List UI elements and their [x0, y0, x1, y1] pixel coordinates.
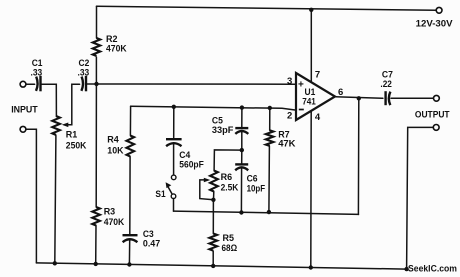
wire node to R6 top [214, 150, 242, 171]
wire pin 6 output to C7 [335, 97, 383, 99]
svg-text:.22: .22 [380, 79, 392, 90]
svg-text:R3: R3 [104, 207, 116, 218]
terminal input bottom [20, 126, 26, 132]
capacitor C7 .22 [386, 91, 391, 105]
wire C4 top lead [173, 107, 175, 138]
wire R7 bottom to feedback bus [268, 146, 271, 212]
svg-text:6: 6 [338, 87, 343, 98]
wire feedback bus horizontal [174, 211, 359, 214]
wire input bottom to ground rail [26, 129, 37, 263]
svg-text:10pF: 10pF [247, 184, 266, 195]
wire C5 bottom to node [241, 132, 243, 150]
svg-text:INPUT: INPUT [11, 104, 38, 114]
capacitor C4 560pF [166, 139, 182, 146]
svg-text:68Ω: 68Ω [222, 243, 238, 254]
wire R6 bottom to wiper junction [213, 192, 215, 200]
wire S1 bottom to feedback bus [173, 199, 175, 211]
wire R3 top lead [95, 84, 97, 207]
wire bottom ground rail [36, 263, 406, 269]
svg-text:741: 741 [302, 96, 316, 107]
svg-text:33pF: 33pF [212, 125, 234, 136]
terminal output top [434, 95, 440, 101]
node R6 wiper [211, 198, 215, 202]
svg-text:560pF: 560pF [179, 159, 204, 170]
node C2/R2/R3/pin3 [94, 82, 98, 86]
resistor R5 68ohm [209, 234, 217, 251]
node C6/feedback bus [239, 210, 243, 214]
svg-text:S1: S1 [155, 189, 166, 200]
svg-text:0.47: 0.47 [143, 239, 160, 250]
wire R1 bottom to ground rail [55, 136, 56, 264]
wire junction down to R5 [212, 200, 214, 234]
capacitor C6 10pF [235, 164, 248, 170]
svg-text:+: + [298, 79, 304, 90]
svg-text:SeekIC.com: SeekIC.com [408, 264, 457, 274]
wire pin 7 to supply rail [310, 9, 312, 82]
wire C6 bottom to feedback bus [240, 168, 242, 213]
op-amp U1 741 [296, 73, 335, 120]
wire C3 bottom to ground rail [128, 241, 130, 265]
terminal supply [436, 7, 442, 13]
capacitor C3 0.47 [123, 235, 138, 242]
svg-text:OUTPUT: OUTPUT [415, 110, 450, 120]
node output return/ground [404, 267, 408, 271]
resistor R2 470K [93, 38, 101, 56]
terminal output bottom [433, 125, 439, 131]
capacitor C2 .33 [81, 76, 86, 92]
node R7 top [268, 106, 272, 110]
node R5/ground [211, 264, 215, 268]
svg-text:.33: .33 [78, 67, 90, 78]
svg-text:2.5K: 2.5K [221, 183, 239, 194]
svg-text:3: 3 [287, 76, 292, 87]
wire C1 to corner and down to R1 [41, 84, 56, 116]
svg-text:4: 4 [315, 112, 321, 123]
wire C7 to output terminal [391, 97, 434, 99]
wire C2 right to junction and main wire to pin 3 [87, 83, 296, 85]
wire C4 bottom to S1 [173, 143, 175, 175]
wire top supply rail [97, 6, 437, 10]
svg-text:.33: .33 [31, 67, 43, 78]
resistor R6 2.5K potentiometer [210, 171, 218, 192]
wire R2 top lead [96, 6, 98, 38]
svg-text:250K: 250K [66, 141, 87, 152]
svg-text:7: 7 [315, 70, 320, 81]
node C4 top [172, 105, 176, 109]
svg-text:470K: 470K [106, 44, 127, 55]
wire feedback vertical from output node [357, 98, 359, 214]
wire R3 bottom lead [95, 226, 97, 264]
svg-text:2: 2 [287, 111, 292, 122]
wire C6 top lead [241, 150, 243, 163]
node C5/C6/R6 [240, 148, 244, 152]
capacitor C1 .33 [36, 76, 41, 92]
node pin4/ground [309, 265, 313, 269]
svg-text:47K: 47K [278, 139, 295, 150]
node pin7/supply [309, 8, 313, 12]
node R3/ground [94, 262, 98, 266]
wire R1 wiper riser [64, 84, 79, 125]
wire R5 bottom to ground rail [212, 251, 214, 266]
wire summing node horizontal to pin 2 [131, 106, 296, 110]
node R7/feedback bus [267, 210, 271, 214]
wire C5 top lead [241, 108, 243, 127]
svg-text:R1: R1 [66, 130, 78, 141]
wire R4 bottom to C3 [129, 157, 131, 235]
node C3/ground [127, 262, 131, 266]
svg-text:470K: 470K [104, 217, 125, 228]
terminal input top [20, 81, 26, 87]
wire input top to C1 [26, 83, 35, 85]
wire R2 bottom lead [95, 57, 97, 84]
wire R7 top lead [269, 108, 271, 130]
resistor R1 250K potentiometer [52, 116, 60, 135]
node C5 top [240, 105, 244, 109]
svg-text:R4: R4 [107, 134, 119, 145]
capacitor C5 33pF [235, 128, 248, 134]
wire R4 top lead [129, 106, 131, 135]
svg-text:12V-30V: 12V-30V [416, 19, 453, 29]
resistor R7 47K [266, 130, 274, 146]
wire pin 4 to ground rail [310, 111, 312, 268]
svg-text:10K: 10K [107, 146, 123, 157]
resistor R4 10K [127, 136, 135, 157]
wire output bottom terminal to ground rail [407, 127, 434, 269]
switch S1 [171, 175, 176, 180]
svg-text:R6: R6 [221, 172, 233, 183]
resistor R3 470K [92, 207, 100, 226]
wire R6 wiper rheostat tie [200, 180, 214, 200]
node output/C7/feedback [357, 96, 361, 100]
node R1/ground [53, 261, 57, 265]
